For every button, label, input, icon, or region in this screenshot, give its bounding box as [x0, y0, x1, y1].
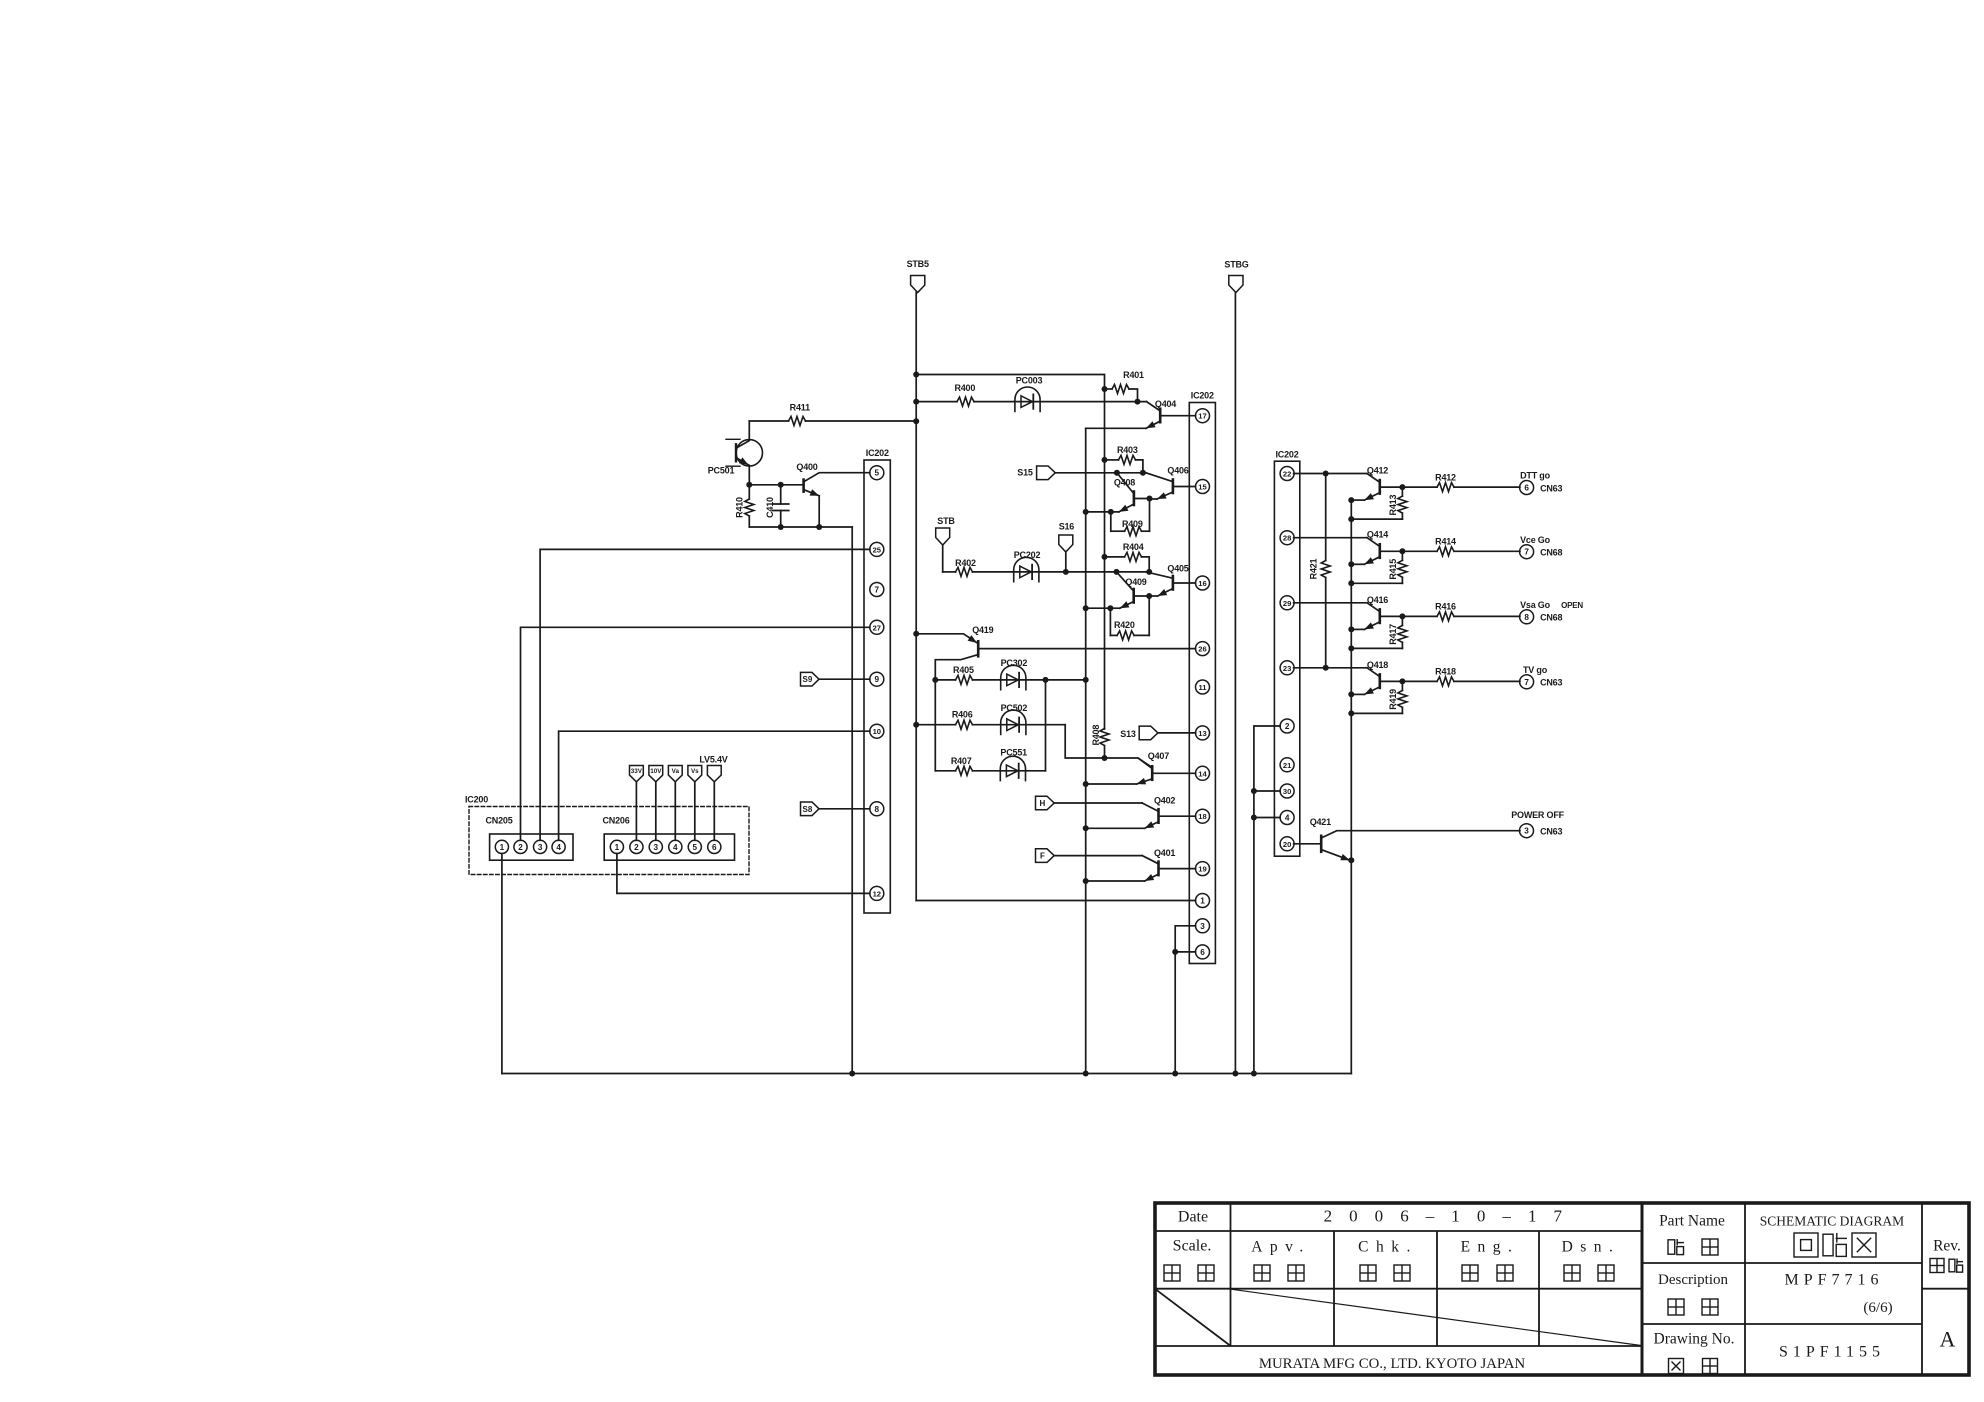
transistor Q404 [1086, 399, 1196, 428]
signal flag S8 [801, 802, 870, 816]
pin 6 IC202-middle [1196, 945, 1210, 959]
pin 14 IC202-middle [1196, 766, 1210, 780]
title diagonal signature cells [1231, 1289, 1641, 1345]
svg-text:Description: Description [1658, 1272, 1728, 1288]
wire PC551 out up to PC302 node [1045, 680, 1047, 771]
pin 10 IC202-left [870, 724, 884, 738]
svg-text:Q409: Q409 [1125, 577, 1146, 587]
svg-text:Dsn.: Dsn. [1562, 1239, 1621, 1256]
svg-text:A: A [1940, 1327, 1956, 1352]
svg-text:R414: R414 [1435, 537, 1456, 547]
kanji circuit diagram large [1794, 1233, 1818, 1257]
wire emitter bus right [1348, 500, 1354, 1073]
signal flag S9 [801, 672, 870, 686]
svg-text:6: 6 [1524, 484, 1529, 493]
pin 3 IC202-middle [1196, 919, 1210, 933]
wire STB5 top branch [916, 375, 1104, 390]
resistor R409 [1111, 499, 1150, 536]
svg-text:22: 22 [1283, 470, 1291, 479]
kanji revision [1930, 1259, 1944, 1273]
svg-text:3: 3 [654, 843, 659, 852]
svg-text:Q408: Q408 [1114, 478, 1135, 488]
connector out Vsa Go [1520, 600, 1584, 624]
svg-text:R417: R417 [1388, 624, 1398, 645]
svg-text:1: 1 [500, 843, 505, 852]
opto diode PC551 [1000, 747, 1045, 780]
power flag Va [668, 766, 682, 841]
opto diode PC202 [1014, 550, 1146, 582]
svg-text:Q404: Q404 [1155, 399, 1176, 409]
pin 21 IC202-right [1280, 758, 1294, 772]
svg-text:Q414: Q414 [1367, 530, 1388, 540]
svg-text:7: 7 [875, 586, 880, 595]
svg-text:Q418: Q418 [1367, 660, 1388, 670]
resistor R404 [1102, 542, 1153, 575]
transistor Q406 [1146, 466, 1196, 499]
svg-text:2: 2 [518, 843, 523, 852]
svg-text:STBG: STBG [1224, 260, 1248, 270]
node base Q400 [746, 482, 803, 488]
svg-text:4: 4 [673, 843, 678, 852]
svg-text:R412: R412 [1435, 472, 1456, 482]
svg-text:TV go: TV go [1523, 665, 1548, 675]
svg-text:28: 28 [1283, 534, 1291, 543]
svg-text:Part Name: Part Name [1659, 1213, 1725, 1230]
kanji confirm [1360, 1265, 1376, 1281]
pin 8 IC202-left [870, 802, 884, 816]
resistor R412 [1399, 472, 1520, 491]
pin 16 IC202-middle [1196, 576, 1210, 590]
svg-text:23: 23 [1283, 664, 1291, 673]
resistor R414 [1399, 537, 1520, 556]
transistor Q408 [1086, 473, 1150, 512]
resistor R416 [1399, 602, 1520, 621]
svg-text:14: 14 [1198, 769, 1207, 778]
resistor R408 [1091, 725, 1109, 758]
svg-text:R415: R415 [1388, 559, 1398, 580]
svg-text:29: 29 [1283, 599, 1291, 608]
svg-text:Rev.: Rev. [1933, 1238, 1961, 1255]
svg-text:8: 8 [1524, 613, 1529, 622]
svg-text:R407: R407 [951, 756, 972, 766]
svg-text:27: 27 [873, 623, 881, 632]
svg-text:R413: R413 [1388, 495, 1398, 516]
transistor Q405 [1146, 563, 1196, 596]
svg-text:16: 16 [1198, 579, 1206, 588]
pin 9 IC202-left [870, 672, 884, 686]
svg-text:C410: C410 [765, 497, 775, 518]
svg-text:20: 20 [1283, 840, 1291, 849]
svg-text:CN205: CN205 [486, 815, 513, 825]
svg-text:Q402: Q402 [1154, 796, 1175, 806]
node Q418 emitter bus [1348, 691, 1354, 716]
svg-text:5: 5 [693, 843, 698, 852]
wire ground bottom bus [502, 1071, 1351, 1077]
transistor Q412 [1294, 466, 1403, 501]
resistor R418 [1399, 667, 1520, 686]
transistor Q401 [1086, 848, 1196, 881]
svg-text:R401: R401 [1123, 370, 1144, 380]
wire STB5 to pin1 [916, 900, 1195, 902]
resistor R411 [749, 403, 916, 426]
svg-text:10: 10 [873, 727, 881, 736]
resistor R401 [1102, 370, 1145, 405]
resistor R417 [1351, 616, 1407, 648]
kanji part [1668, 1239, 1684, 1255]
svg-text:4: 4 [1285, 814, 1290, 823]
title texts [1173, 1207, 1961, 1373]
svg-text:S13: S13 [1120, 729, 1136, 739]
svg-text:26: 26 [1198, 645, 1206, 654]
kanji inspect [1462, 1265, 1478, 1281]
resistor R400 [916, 383, 1014, 406]
svg-text:STB5: STB5 [907, 259, 929, 269]
wire STB5 vertical rail [913, 293, 919, 901]
wire pin12 to CN206-1 [617, 854, 870, 894]
pin 25 IC202-left [870, 542, 884, 556]
svg-text:IC202: IC202 [1191, 391, 1214, 401]
svg-text:Chk.: Chk. [1358, 1239, 1418, 1256]
power flag Vs [688, 766, 702, 841]
wire STB5 rail R401-R403-R404-R408 [1104, 389, 1106, 729]
svg-text:R421: R421 [1309, 558, 1319, 579]
wire pins 3,6 to ground [1172, 926, 1195, 1074]
pin 22 IC202-right [1280, 467, 1294, 481]
pin 7 IC202-left [870, 583, 884, 597]
svg-text:R405: R405 [953, 665, 974, 675]
svg-text:3: 3 [1200, 922, 1205, 931]
svg-text:Q400: Q400 [796, 462, 817, 472]
resistor R415 [1351, 551, 1407, 583]
pin 23 IC202-right [1280, 661, 1294, 675]
pin 29 IC202-right [1280, 596, 1294, 610]
transistor Q416 [1294, 595, 1403, 630]
opto diode PC302 [1001, 658, 1086, 690]
svg-text:1: 1 [1200, 897, 1205, 906]
transistor Q407 [1086, 751, 1196, 784]
svg-text:CN206: CN206 [603, 815, 630, 825]
svg-text:Q412: Q412 [1367, 466, 1388, 476]
wire pin25 to CN205-3 [540, 549, 870, 840]
wire emitter bus [1083, 428, 1089, 1073]
svg-text:5: 5 [875, 469, 880, 478]
svg-text:CN68: CN68 [1540, 613, 1562, 623]
svg-text:R402: R402 [955, 558, 976, 568]
svg-text:2: 2 [634, 843, 639, 852]
svg-text:Q405: Q405 [1167, 563, 1188, 573]
svg-text:F: F [1040, 852, 1045, 861]
svg-text:R406: R406 [952, 710, 973, 720]
svg-text:PC202: PC202 [1014, 550, 1041, 560]
svg-text:Vs: Vs [691, 768, 699, 775]
svg-text:(6/6): (6/6) [1863, 1300, 1892, 1316]
svg-text:STB: STB [937, 516, 955, 526]
svg-text:Q419: Q419 [972, 625, 993, 635]
signal flag S13 [1120, 726, 1195, 740]
svg-text:SCHEMATIC DIAGRAM: SCHEMATIC DIAGRAM [1760, 1214, 1904, 1229]
svg-text:S9: S9 [803, 675, 813, 684]
svg-text:R419: R419 [1388, 689, 1398, 710]
svg-text:Scale.: Scale. [1173, 1238, 1212, 1255]
kanji approve [1254, 1265, 1270, 1281]
signal flag S16 [1059, 521, 1075, 575]
transistor Q400 [796, 462, 869, 527]
svg-text:PC302: PC302 [1001, 658, 1028, 668]
pin 26 IC202-middle [1196, 642, 1210, 656]
wire pin10 to CN205-4 [559, 731, 870, 840]
opto transistor PC501 [708, 421, 763, 485]
svg-text:9: 9 [875, 675, 880, 684]
resistor R420 [1110, 596, 1149, 640]
svg-text:2: 2 [1285, 722, 1290, 731]
IC U-block IC202 right [1274, 449, 1299, 856]
pin 2 IC202-right [1280, 719, 1294, 733]
svg-text:CN63: CN63 [1540, 483, 1562, 493]
kanji scale [1164, 1265, 1180, 1281]
svg-text:MPF7716: MPF7716 [1784, 1272, 1883, 1289]
svg-text:Eng.: Eng. [1461, 1239, 1520, 1256]
svg-text:R409: R409 [1122, 519, 1143, 529]
svg-text:Apv.: Apv. [1251, 1239, 1311, 1256]
svg-text:R400: R400 [954, 383, 975, 393]
connector out Vce Go [1520, 535, 1563, 559]
pin 5 IC202-left [870, 466, 884, 480]
pin 11 IC202-middle [1196, 680, 1210, 694]
svg-text:6: 6 [712, 843, 717, 852]
resistor R403 [1102, 445, 1143, 473]
resistor R405 [932, 665, 1000, 685]
signal flag F [1036, 849, 1143, 863]
pin 18 IC202-middle [1196, 809, 1210, 823]
svg-text:1: 1 [615, 843, 620, 852]
svg-text:POWER OFF: POWER OFF [1511, 810, 1564, 820]
node Q416 emitter bus [1348, 626, 1354, 651]
svg-text:IC202: IC202 [1275, 449, 1298, 459]
svg-text:MURATA MFG CO., LTD. KYOTO JAP: MURATA MFG CO., LTD. KYOTO JAPAN [1259, 1356, 1526, 1372]
svg-text:S1PF1155: S1PF1155 [1779, 1344, 1885, 1361]
svg-text:IC202: IC202 [866, 448, 889, 458]
resistor R413 [1351, 487, 1407, 519]
pin 28 IC202-right [1280, 531, 1294, 545]
svg-text:21: 21 [1283, 761, 1292, 770]
svg-text:Q401: Q401 [1154, 848, 1175, 858]
svg-text:19: 19 [1198, 865, 1206, 874]
connector CN205 [486, 815, 574, 860]
svg-text:R404: R404 [1123, 542, 1144, 552]
svg-text:11: 11 [1198, 683, 1207, 692]
pin 19 IC202-middle [1196, 862, 1210, 876]
transistor Q402 [1086, 796, 1196, 829]
pin 4 IC202-right [1280, 811, 1294, 825]
svg-text:Q421: Q421 [1310, 817, 1331, 827]
svg-text:3: 3 [538, 843, 543, 852]
svg-text:Date: Date [1178, 1209, 1208, 1226]
svg-text:PC551: PC551 [1000, 747, 1027, 757]
resistor R421 [1309, 471, 1331, 671]
svg-text:OPEN: OPEN [1561, 601, 1583, 610]
svg-text:CN63: CN63 [1540, 678, 1562, 688]
svg-text:3: 3 [1524, 827, 1529, 836]
node Q406 emitter / Q408 collector [1108, 496, 1153, 515]
svg-text:12: 12 [873, 889, 881, 898]
svg-text:R411: R411 [790, 403, 810, 413]
svg-text:Va: Va [672, 768, 680, 775]
svg-text:PC501: PC501 [708, 465, 735, 475]
svg-text:PC003: PC003 [1016, 376, 1043, 386]
power flag STBG [1224, 260, 1248, 293]
svg-text:17: 17 [1198, 412, 1206, 421]
resistor R402 [943, 558, 1014, 576]
wire CN205-1 to ground line [501, 854, 503, 1074]
signal flag STB [936, 516, 956, 572]
pin 12 IC202-left [870, 886, 884, 900]
svg-text:6: 6 [1200, 948, 1205, 957]
svg-text:Q406: Q406 [1167, 466, 1188, 476]
node Q405 emitter / Q409 collector [1107, 593, 1152, 611]
svg-text:4: 4 [556, 843, 561, 852]
transistor Q414 [1294, 530, 1403, 565]
svg-text:S16: S16 [1059, 521, 1075, 531]
pin 17 IC202-middle [1196, 409, 1210, 423]
wire Q400 emitter to ground bus [749, 524, 852, 1074]
svg-text:H: H [1040, 799, 1046, 808]
svg-text:30: 30 [1283, 787, 1291, 796]
IC U-block IC202 left [864, 448, 890, 913]
node Q412 emitter bus [1348, 497, 1354, 522]
wire pin27 to CN205-2 [521, 627, 870, 840]
svg-text:15: 15 [1198, 483, 1207, 492]
signal flag S15 [1017, 466, 1146, 480]
IC module IC200 dashed box [465, 795, 749, 875]
power flag 33V [629, 766, 643, 841]
transistor Q419 (PNP) [916, 625, 1195, 771]
wire pins 2,30,4 to ground [1251, 726, 1280, 1074]
svg-text:DTT go: DTT go [1520, 471, 1550, 481]
connector out DTT go [1520, 471, 1563, 495]
svg-text:CN63: CN63 [1540, 827, 1562, 837]
resistor R419 [1351, 681, 1407, 713]
title diagonal scale cell [1156, 1289, 1231, 1345]
svg-text:Vce Go: Vce Go [1520, 535, 1551, 545]
pin 15 IC202-middle [1196, 480, 1210, 494]
kanji drawing number [1669, 1359, 1684, 1374]
svg-text:13: 13 [1198, 729, 1206, 738]
svg-text:7: 7 [1524, 678, 1529, 687]
svg-text:25: 25 [873, 545, 882, 554]
power flag 10V [649, 766, 663, 841]
title block frame [1155, 1203, 1969, 1375]
resistor R406 [916, 710, 1001, 730]
svg-text:R403: R403 [1117, 445, 1138, 455]
wire PC502 out to R408 node [1065, 725, 1152, 768]
svg-text:Q407: Q407 [1148, 751, 1169, 761]
IC U-block IC202 middle [1189, 391, 1215, 964]
svg-text:2 0 0 6 – 1 0 – 1 7: 2 0 0 6 – 1 0 – 1 7 [1324, 1207, 1569, 1226]
svg-text:R416: R416 [1435, 602, 1456, 612]
resistor R407 [935, 756, 1000, 775]
svg-text:R408: R408 [1091, 725, 1101, 746]
connector CN206 [603, 815, 735, 860]
svg-text:Q416: Q416 [1367, 595, 1388, 605]
pin 27 IC202-left [870, 620, 884, 634]
kanji charge [1564, 1265, 1580, 1281]
wire STBG vertical [1234, 293, 1236, 1074]
svg-text:Vsa Go: Vsa Go [1520, 600, 1551, 610]
power flag STB5 [907, 259, 929, 292]
svg-text:R418: R418 [1435, 667, 1456, 677]
resistor R410 [735, 485, 754, 527]
svg-text:S15: S15 [1017, 468, 1033, 478]
opto diode PC003 [1014, 376, 1147, 412]
transistor Q418 [1294, 660, 1403, 695]
pin 13 IC202-middle [1196, 726, 1210, 740]
transistor Q409 [1086, 572, 1150, 608]
svg-text:S8: S8 [803, 805, 813, 814]
svg-text:18: 18 [1198, 812, 1206, 821]
pin 30 IC202-right [1280, 784, 1294, 798]
svg-text:CN68: CN68 [1540, 548, 1562, 558]
connector out TV go [1520, 665, 1563, 689]
svg-text:PC502: PC502 [1001, 703, 1028, 713]
opto diode PC502 [1001, 703, 1066, 734]
svg-text:IC200: IC200 [465, 795, 488, 805]
power flag LV5.4V [699, 755, 727, 841]
svg-text:LV5.4V: LV5.4V [699, 755, 727, 765]
capacitor C410 [765, 485, 789, 527]
svg-text:8: 8 [875, 805, 880, 814]
kanji machine name [1668, 1299, 1684, 1315]
transistor Q421 [1294, 817, 1520, 860]
svg-text:Drawing No.: Drawing No. [1654, 1331, 1735, 1348]
svg-text:7: 7 [1524, 548, 1529, 557]
svg-text:R420: R420 [1114, 620, 1135, 630]
node Q414 emitter bus [1348, 561, 1354, 586]
svg-text:R410: R410 [735, 497, 745, 518]
pin 1 IC202-middle [1196, 894, 1210, 908]
pin 20 IC202-right [1280, 837, 1294, 851]
svg-text:10V: 10V [650, 768, 662, 775]
svg-text:33V: 33V [631, 768, 643, 775]
signal flag H [1036, 796, 1143, 810]
connector out POWER OFF [1511, 810, 1564, 838]
